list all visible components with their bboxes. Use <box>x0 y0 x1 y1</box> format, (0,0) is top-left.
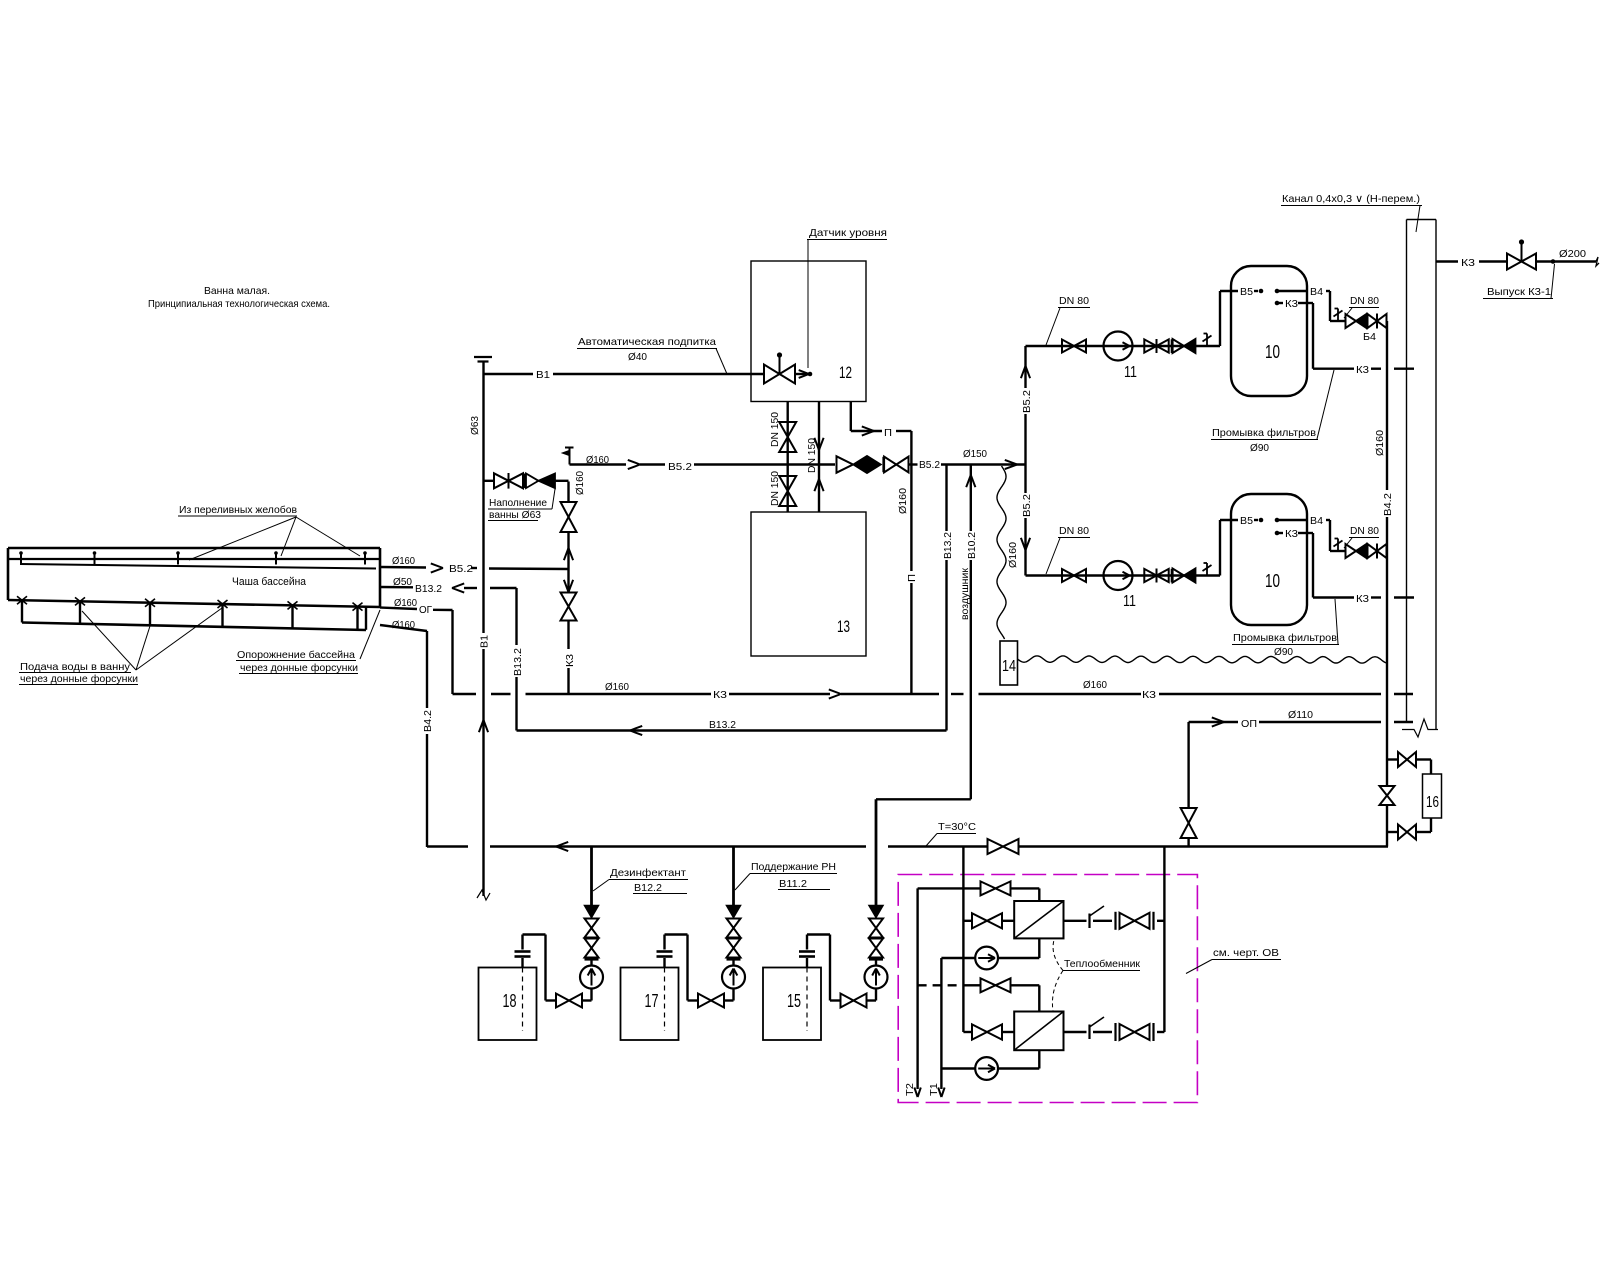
svg-text:через донные форсунки: через донные форсунки <box>20 673 138 685</box>
arrow T2 down <box>914 1088 920 1098</box>
svg-text:Наполнение: Наполнение <box>489 497 547 509</box>
wire B4 to riser upper <box>1385 320 1388 322</box>
label В5 upper <box>1240 287 1253 298</box>
box 13 tank <box>751 512 866 656</box>
svg-text:Ø40: Ø40 <box>628 351 647 363</box>
label К3 lower drain <box>1356 594 1369 605</box>
pump 11 lower <box>1104 561 1137 610</box>
label В13.2 riser <box>942 532 954 559</box>
valve check B4 upper <box>1346 314 1367 328</box>
arrow B13.2 left <box>452 583 464 592</box>
heat exchanger 1 <box>1014 901 1063 938</box>
svg-text:Принципиальная технологическая: Принципиальная технологическая схема. <box>148 298 330 310</box>
svg-text:Т=30°С: Т=30°С <box>938 821 976 833</box>
label В5.2 feed upper <box>1021 390 1033 413</box>
label DN 80 B4 upper <box>1344 295 1379 318</box>
wire B13.2 horizontal <box>517 729 947 731</box>
svg-text:Ø50: Ø50 <box>393 576 412 588</box>
arrow main left <box>556 842 568 851</box>
svg-text:Выпуск К3-1: Выпуск К3-1 <box>1487 286 1551 298</box>
svg-text:ванны Ø63: ванны Ø63 <box>489 509 541 521</box>
valve bypass lower <box>1398 825 1416 840</box>
valve B4 upper <box>1368 314 1387 329</box>
valve K3-1 motorized <box>1507 239 1536 269</box>
overflow gutter ticks <box>19 551 367 564</box>
pool left edge <box>7 548 10 600</box>
dosing station 17 <box>621 847 746 1041</box>
svg-text:Ø160: Ø160 <box>897 488 909 514</box>
svg-text:К3: К3 <box>1356 365 1369 376</box>
label ОП <box>1241 718 1257 730</box>
svg-text:В4: В4 <box>1310 287 1323 298</box>
svg-text:DN 80: DN 80 <box>1350 525 1379 537</box>
wire P from box12 <box>851 402 912 432</box>
arrow K3 drain <box>829 689 841 698</box>
wavy break horizontal <box>1018 656 1387 663</box>
label Ø160 x568 <box>574 471 586 495</box>
node B4 dot upper <box>1275 289 1280 294</box>
wire main bottom <box>427 845 1388 847</box>
svg-text:11: 11 <box>1124 364 1137 381</box>
svg-text:Ø160: Ø160 <box>605 681 629 693</box>
label Автоматическая подпитка <box>577 336 727 374</box>
tap lower <box>1203 563 1212 576</box>
svg-text:К3: К3 <box>1285 529 1298 540</box>
svg-text:Промывка фильтров: Промывка фильтров <box>1233 632 1337 644</box>
label Наполнение <box>488 489 555 521</box>
check valve upper <box>1173 339 1196 353</box>
svg-text:В12.2: В12.2 <box>634 882 662 894</box>
pool gutter slant line <box>20 564 376 569</box>
svg-text:В5.2: В5.2 <box>1021 494 1033 517</box>
valve HX2 top <box>981 978 1011 992</box>
svg-text:10: 10 <box>1265 342 1280 362</box>
tap HX2 <box>1090 1017 1105 1039</box>
label Из переливных желобов <box>178 504 360 560</box>
svg-text:воздушник: воздушник <box>959 568 971 620</box>
wire B13.2 vertical pool <box>515 588 517 731</box>
arrow OP right <box>1212 717 1224 726</box>
label В5.2 mid <box>919 459 940 471</box>
pump HX1 <box>975 947 998 970</box>
valve DN150 lower <box>779 476 796 506</box>
wire B4.2 vertical left <box>426 631 428 847</box>
wire B4 lower <box>1279 520 1345 551</box>
label В4.2 riser <box>1382 493 1394 516</box>
label Ø160 P line <box>897 488 909 514</box>
dosing station 18 <box>479 847 604 1041</box>
svg-text:В5.2: В5.2 <box>449 563 473 575</box>
label В10.2 riser <box>966 532 978 559</box>
svg-text:через донные форсунки: через донные форсунки <box>240 662 358 674</box>
label Канал <box>1281 193 1422 232</box>
wire line4 pool outlet <box>380 625 427 631</box>
label Теплообменник <box>1052 940 1140 1011</box>
wire K3 outlet <box>1436 260 1596 262</box>
label см. черт. ОВ <box>1186 947 1281 974</box>
svg-text:В13.2: В13.2 <box>415 583 442 595</box>
heat exchanger 2 <box>1014 1012 1063 1051</box>
check fill <box>526 474 555 489</box>
svg-text:В5.2: В5.2 <box>668 461 692 473</box>
filter tank 10 lower <box>1231 494 1307 625</box>
label Т2 <box>904 1083 916 1096</box>
label К3 upper drain <box>1356 365 1369 376</box>
label Ø200 <box>1559 248 1586 260</box>
svg-text:15: 15 <box>787 991 801 1011</box>
wire B5.2 upper run <box>570 463 788 465</box>
wire pump HX1 <box>941 938 1039 958</box>
wire OG vertical <box>451 610 453 694</box>
svg-text:К3: К3 <box>1356 594 1369 605</box>
svg-text:см. черт. ОВ: см. черт. ОВ <box>1213 947 1279 959</box>
label DN 150 upper <box>769 412 781 447</box>
boundary см.черт.ОВ magenta <box>898 875 1197 1103</box>
label DN 80 upper <box>1046 295 1090 345</box>
node sensor dot <box>808 372 813 377</box>
wire pH dosing top <box>875 799 878 905</box>
wire HX supply vertical <box>962 847 964 1033</box>
label В5.2 feed lower <box>1021 494 1033 517</box>
svg-text:Канал 0,4х0,3 ∨ (Н-перем.): Канал 0,4х0,3 ∨ (Н-перем.) <box>1282 193 1420 205</box>
arrow P right <box>862 426 874 435</box>
arrow v2 up <box>814 479 823 491</box>
label воздушник <box>959 568 971 620</box>
arrow v2 down <box>814 438 823 450</box>
svg-text:В4.2: В4.2 <box>1382 493 1394 516</box>
wire B10.2 riser <box>970 465 972 800</box>
label К3 drain right <box>1142 689 1156 701</box>
dosing station 15 <box>763 906 888 1041</box>
node B4 dot lower <box>1275 518 1280 523</box>
wire OG pool outlet <box>380 608 453 611</box>
label К3 drain left <box>713 689 727 701</box>
label DN 150 lower <box>769 471 781 506</box>
svg-text:Ø90: Ø90 <box>1274 646 1293 658</box>
valves double upper <box>1144 339 1172 353</box>
svg-text:В13.2: В13.2 <box>709 719 736 731</box>
svg-text:Промывка фильтров: Промывка фильтров <box>1212 427 1316 439</box>
label DN 150 v2 <box>806 438 818 473</box>
valve HX1 inlet <box>972 913 1002 928</box>
svg-text:Ø90: Ø90 <box>1250 442 1269 454</box>
svg-text:12: 12 <box>839 364 852 382</box>
pump 11 upper <box>1104 332 1138 382</box>
svg-text:14: 14 <box>1002 658 1016 675</box>
svg-text:DN 150: DN 150 <box>806 438 818 473</box>
label Подача воды в ванну <box>19 608 222 685</box>
svg-text:Поддержание РН: Поддержание РН <box>751 861 836 873</box>
label К3 outlet <box>1461 257 1475 269</box>
tap HX1 <box>1090 906 1105 928</box>
label В13.2 return <box>709 719 736 731</box>
svg-text:Ø150: Ø150 <box>963 448 987 460</box>
label Ø160 upper <box>586 454 609 466</box>
label В4 lower <box>1310 516 1323 527</box>
svg-text:DN 150: DN 150 <box>769 471 781 506</box>
node B5 dot upper <box>1259 289 1264 294</box>
label В5.2 upper <box>668 461 692 473</box>
svg-text:В4.2: В4.2 <box>422 710 434 732</box>
svg-text:Ø160: Ø160 <box>1083 679 1107 691</box>
valve fill 1 <box>494 473 523 489</box>
label Ø160 riser <box>1374 430 1386 456</box>
svg-text:Б4: Б4 <box>1363 332 1376 343</box>
label ОГ <box>419 604 432 616</box>
arrow into box12 <box>799 370 809 378</box>
svg-text:Теплообменник: Теплообменник <box>1064 958 1140 970</box>
box 14 <box>1000 641 1018 685</box>
wire B5.2 pool outlet <box>380 567 569 569</box>
mains supply double bar <box>474 357 492 362</box>
wire K3 upper drain <box>1279 303 1414 369</box>
svg-text:ОГ: ОГ <box>419 604 432 616</box>
arrow B5.2 into tee <box>1005 460 1017 469</box>
pump HX2 <box>975 1057 998 1080</box>
wire OP vertical <box>1187 722 1189 847</box>
svg-text:П: П <box>906 574 918 582</box>
title text <box>148 285 330 310</box>
pool floor line <box>8 600 380 607</box>
wire B10.2 link <box>876 798 971 800</box>
label В5.2 pool line <box>449 563 473 575</box>
valve HX top <box>981 881 1011 895</box>
valve x568 lower <box>561 593 577 621</box>
valve upper filter inlet <box>1062 340 1086 353</box>
label Ø150 <box>963 448 987 460</box>
node B5 dot lower <box>1259 518 1264 523</box>
label В13.2 pool line <box>415 583 442 595</box>
wire K3 main drain <box>453 693 1414 695</box>
valve bypass upper <box>1398 752 1416 767</box>
label Дезинфектант <box>593 867 688 894</box>
wire OP horizontal <box>1189 721 1413 723</box>
svg-text:В5.2: В5.2 <box>1021 390 1033 413</box>
wire HX1 outlet <box>1064 920 1165 922</box>
pool right edge <box>379 548 382 607</box>
arrow x568 down <box>564 580 573 592</box>
svg-text:DN 150: DN 150 <box>769 412 781 447</box>
svg-text:DN 80: DN 80 <box>1059 525 1089 537</box>
svg-text:Ø160: Ø160 <box>1374 430 1386 456</box>
channel bottom break <box>1402 719 1438 737</box>
valve HX1 outlet flanged <box>1116 912 1154 930</box>
label DN 80 lower <box>1046 525 1090 574</box>
wire bypass lower <box>1387 818 1431 832</box>
svg-text:Дезинфектант: Дезинфектант <box>610 867 686 879</box>
wire lower filter line <box>1026 574 1221 576</box>
box 12 level tank <box>751 261 866 402</box>
label В4.2 rotated <box>422 710 434 732</box>
svg-text:К3: К3 <box>1461 257 1475 269</box>
wire K3 vertical x568 <box>567 482 569 695</box>
wire upper filter to tank <box>1220 291 1258 346</box>
air vent top <box>563 448 574 465</box>
svg-text:Из переливных желобов: Из переливных желобов <box>179 504 297 516</box>
valve HX2 inlet <box>972 1024 1002 1039</box>
arrow feed down <box>1021 538 1030 550</box>
label T=30C <box>926 821 976 846</box>
wire fill line <box>484 480 569 482</box>
label Выпуск К3-1 <box>1483 264 1555 299</box>
valve check B4 lower <box>1346 544 1367 558</box>
label Ø160 line1 <box>392 555 415 567</box>
svg-text:В11.2: В11.2 <box>779 878 807 890</box>
svg-text:17: 17 <box>645 991 659 1011</box>
wire HX2 inlet <box>963 1031 1014 1033</box>
svg-text:Датчик уровня: Датчик уровня <box>809 227 887 239</box>
svg-text:К3: К3 <box>564 654 576 667</box>
svg-text:Ванна малая.: Ванна малая. <box>204 285 270 297</box>
arrow B1 up <box>479 720 488 732</box>
wire DN150 v2 <box>818 402 820 513</box>
label DN 80 B4 lower <box>1344 525 1379 548</box>
svg-text:В5: В5 <box>1240 287 1253 298</box>
valve lower filter inlet <box>1062 569 1086 582</box>
valve B4 lower <box>1368 544 1387 559</box>
svg-text:В4: В4 <box>1310 516 1323 527</box>
wire B5.2 after butterfly <box>909 463 1026 465</box>
wire HX top line T2 <box>918 888 1040 901</box>
svg-text:Подача воды в ванну: Подача воды в ванну <box>20 661 131 673</box>
valves double lower <box>1144 569 1172 583</box>
svg-text:В13.2: В13.2 <box>512 648 524 676</box>
node outlet dot <box>1551 259 1556 264</box>
svg-text:16: 16 <box>1426 794 1439 811</box>
svg-text:К3: К3 <box>1285 299 1298 310</box>
svg-text:18: 18 <box>503 991 517 1011</box>
svg-text:Ø200: Ø200 <box>1559 248 1586 260</box>
channel walls <box>1407 220 1437 730</box>
wire pump HX2 <box>941 1050 1039 1068</box>
wire filter feed vertical <box>1024 346 1026 576</box>
svg-text:В5.2: В5.2 <box>919 459 940 471</box>
wire B13.2 pool outlet <box>380 587 517 588</box>
label К3 upper port <box>1285 299 1298 310</box>
svg-text:Опорожнение бассейна: Опорожнение бассейна <box>237 649 355 661</box>
svg-text:Автоматическая подпитка: Автоматическая подпитка <box>578 336 716 348</box>
label Ø160 drain left <box>605 681 629 693</box>
pool chamber verticals <box>22 600 366 630</box>
tap B4 upper <box>1334 309 1343 322</box>
arrow B10.2 up <box>966 475 975 487</box>
label Опорожнение бассейна <box>236 610 380 674</box>
label Ø160 line3 <box>394 597 417 609</box>
box 16 <box>1423 774 1442 818</box>
svg-text:Ø160: Ø160 <box>392 619 415 631</box>
valve HX2 outlet flanged <box>1116 1023 1154 1041</box>
label П rotated <box>906 574 918 582</box>
label Поддержание РН <box>735 861 837 890</box>
valve x568 upper <box>561 502 577 532</box>
wire HX2 top line <box>918 985 1040 1011</box>
node K3 dot upper <box>1275 301 1280 306</box>
label Т1 <box>928 1083 940 1096</box>
svg-text:10: 10 <box>1265 571 1280 591</box>
label К3 x568 <box>564 654 576 667</box>
wire riser B4.2 <box>1386 321 1388 760</box>
wire B5.2 to butterfly <box>788 463 835 465</box>
svg-text:Ø63: Ø63 <box>469 416 481 435</box>
svg-text:В1: В1 <box>479 635 491 648</box>
wire riser lower <box>1386 832 1388 847</box>
label П horizontal <box>884 427 892 439</box>
svg-text:Ø160: Ø160 <box>1007 542 1019 568</box>
label Промывка фильтров upper <box>1211 370 1334 454</box>
wire B1 vertical <box>482 362 484 897</box>
check valve lower <box>1173 569 1196 583</box>
svg-text:11: 11 <box>1123 593 1136 610</box>
wire B13.2 riser <box>945 465 947 731</box>
arrow x568 up <box>564 548 573 560</box>
tap upper <box>1203 334 1212 347</box>
arrow T1 down <box>938 1088 944 1098</box>
break squiggle B1 bottom <box>477 890 490 900</box>
svg-text:Ø160: Ø160 <box>586 454 609 466</box>
label Ø160 drain right <box>1083 679 1107 691</box>
svg-text:Ø160: Ø160 <box>392 555 415 567</box>
pool chamber bottom line <box>22 623 366 631</box>
svg-text:К3: К3 <box>713 689 727 701</box>
wire HX2 outlet <box>1064 1031 1165 1033</box>
svg-text:Ø160: Ø160 <box>394 597 417 609</box>
valve main line <box>988 839 1019 854</box>
svg-text:Т2: Т2 <box>904 1083 916 1096</box>
label В1 on line <box>536 369 550 381</box>
label Датчик уровня <box>807 227 887 368</box>
wire P vertical <box>910 431 912 694</box>
wire B4 upper <box>1279 291 1345 321</box>
svg-text:В13.2: В13.2 <box>942 532 954 559</box>
wire K3 lower drain <box>1279 533 1414 598</box>
wavy break vertical <box>997 466 1006 639</box>
pool gutter inner line <box>8 558 380 560</box>
svg-text:П: П <box>884 427 892 439</box>
arrow B13.2 ret left <box>630 726 642 735</box>
svg-text:К3: К3 <box>1142 689 1156 701</box>
label Ø110 <box>1288 709 1313 721</box>
label Чаша бассейна <box>232 576 307 588</box>
svg-text:В1: В1 <box>536 369 550 381</box>
tap B4 lower <box>1334 539 1343 552</box>
label К3 lower port <box>1285 529 1298 540</box>
wire B1 horizontal <box>484 373 807 375</box>
label В1 rotated <box>479 635 491 648</box>
label Промывка фильтров lower <box>1232 599 1339 658</box>
label Ø50 line2 <box>393 576 412 588</box>
flange fill <box>522 474 526 489</box>
pool gutter top line <box>8 547 380 550</box>
svg-text:ОП: ОП <box>1241 718 1257 730</box>
bottom nozzle X marks <box>17 596 363 610</box>
valve OP <box>1181 808 1197 838</box>
valve auto-refill motorized <box>764 352 795 383</box>
svg-text:Ø110: Ø110 <box>1288 709 1313 721</box>
label Ø160 line4 <box>392 619 415 631</box>
filter tank 10 upper <box>1231 266 1307 396</box>
svg-text:13: 13 <box>837 618 850 636</box>
svg-text:Т1: Т1 <box>928 1083 940 1096</box>
label В5 lower <box>1240 516 1253 527</box>
wire upper filter line <box>1026 345 1221 347</box>
label Б4 upper <box>1363 332 1376 343</box>
valve riser middle <box>1380 760 1395 833</box>
arrow feed up <box>1021 366 1030 378</box>
wire T2 vertical <box>916 888 918 1089</box>
wire lower filter to tank <box>1220 520 1258 576</box>
arrow B5.2 upper <box>628 460 640 469</box>
svg-text:В10.2: В10.2 <box>966 532 978 559</box>
